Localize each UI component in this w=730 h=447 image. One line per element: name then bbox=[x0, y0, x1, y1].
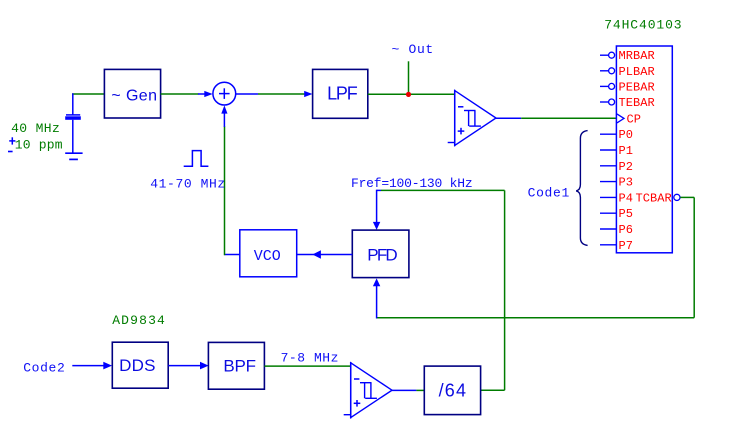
pin P7 bbox=[600, 239, 633, 253]
wire comparator U3 to /64 bbox=[392, 389, 425, 391]
pulse symbol bbox=[184, 151, 209, 167]
pin CP clock chevron bbox=[617, 112, 641, 126]
svg-text:P1: P1 bbox=[619, 144, 634, 158]
capacitor X1 top lead bbox=[72, 93, 74, 114]
svg-text:CP: CP bbox=[627, 112, 642, 126]
label plus-minus 10 ppm bbox=[8, 137, 63, 152]
svg-text:P5: P5 bbox=[619, 207, 634, 221]
svg-text:/64: /64 bbox=[439, 381, 468, 401]
pin MRBAR bbox=[600, 49, 655, 63]
svg-text:7-8 MHz: 7-8 MHz bbox=[281, 351, 339, 366]
label AD9834 bbox=[112, 313, 166, 328]
pin P3 bbox=[600, 176, 633, 190]
pin P4 bbox=[600, 191, 633, 205]
block VCO bbox=[240, 230, 297, 277]
svg-text:P4: P4 bbox=[619, 191, 634, 205]
capacitor X1 plates bbox=[65, 115, 81, 120]
label 7-8 MHz bbox=[281, 351, 339, 366]
svg-text:~ Out: ~ Out bbox=[392, 42, 434, 57]
pin P1 bbox=[600, 144, 633, 158]
wire VCO output stub bbox=[225, 254, 240, 256]
svg-text:P3: P3 bbox=[619, 176, 634, 190]
svg-text:P0: P0 bbox=[619, 128, 634, 142]
label Code2 bbox=[23, 361, 65, 376]
label 74HC40103 bbox=[604, 18, 682, 33]
block PFD bbox=[352, 230, 409, 278]
svg-text:PLBAR: PLBAR bbox=[619, 65, 655, 79]
svg-text:AD9834: AD9834 bbox=[112, 313, 166, 328]
svg-text:~ Gen: ~ Gen bbox=[111, 87, 157, 104]
svg-text:BPF: BPF bbox=[223, 356, 255, 375]
block DDS bbox=[112, 342, 168, 388]
brace Code1 bbox=[576, 131, 587, 246]
label Code1 bbox=[528, 185, 570, 200]
svg-text:DDS: DDS bbox=[119, 356, 156, 375]
block Gen bbox=[104, 69, 160, 118]
label Fref=100-130 kHz bbox=[351, 176, 472, 191]
wire: crystal node to Gen input bbox=[72, 93, 105, 95]
svg-text:TEBAR: TEBAR bbox=[619, 96, 655, 110]
wire VCO riser to summer bbox=[223, 113, 225, 255]
block LPF bbox=[313, 69, 368, 118]
wire Out stub bbox=[408, 61, 410, 94]
svg-text:TCBAR: TCBAR bbox=[636, 191, 672, 205]
wire LPF output to comparator (node Out) bbox=[368, 93, 455, 95]
wire and arrow into PFD top bbox=[373, 190, 380, 230]
ground bbox=[65, 153, 82, 159]
summer S1 bbox=[213, 82, 236, 105]
pin PLBAR bbox=[600, 65, 655, 79]
svg-text:VCO: VCO bbox=[254, 248, 281, 265]
svg-text:P6: P6 bbox=[619, 223, 634, 237]
svg-text:MRBAR: MRBAR bbox=[619, 49, 655, 63]
svg-text:P7: P7 bbox=[619, 239, 634, 253]
wire TCBAR to PFD return path bbox=[376, 197, 694, 317]
pin TEBAR bbox=[600, 96, 655, 110]
op-amp U2 comparator (Schmitt) bbox=[448, 90, 496, 146]
svg-text:PEBAR: PEBAR bbox=[619, 80, 655, 94]
wire DDS to BPF with arrow bbox=[168, 362, 208, 370]
wire PFD to VCO with left arrow bbox=[297, 250, 352, 259]
svg-text:40 MHz: 40 MHz bbox=[11, 121, 60, 136]
svg-text:41-70 MHz: 41-70 MHz bbox=[150, 176, 225, 191]
svg-text:Fref=100-130 kHz: Fref=100-130 kHz bbox=[351, 176, 472, 191]
capacitor X1 bottom lead bbox=[72, 120, 74, 153]
svg-text:Code1: Code1 bbox=[528, 185, 570, 200]
svg-text:LPF: LPF bbox=[327, 84, 358, 104]
op-amp U3 comparator (Schmitt) bbox=[344, 362, 392, 418]
junction dot node Out bbox=[406, 92, 411, 97]
pin P2 bbox=[600, 160, 633, 174]
svg-text:P2: P2 bbox=[619, 160, 634, 174]
svg-text:10 ppm: 10 ppm bbox=[15, 138, 63, 153]
wire BPF to comparator U3 bbox=[264, 365, 350, 367]
pin P0 bbox=[600, 128, 633, 142]
svg-text:Code2: Code2 bbox=[23, 361, 65, 376]
wire comparator output to CP bbox=[496, 117, 617, 119]
arrow into summer bbox=[198, 91, 213, 97]
block /64 bbox=[424, 366, 480, 415]
pin TCBAR label and bubble bbox=[636, 191, 681, 205]
label 41-70 MHz bbox=[150, 176, 225, 191]
wire Fref net: riser from /64 to PFD top bbox=[377, 190, 505, 390]
label ~ Out bbox=[392, 42, 434, 57]
arrow into LPF bbox=[304, 91, 312, 97]
pin P6 bbox=[600, 223, 633, 237]
svg-text:74HC40103: 74HC40103 bbox=[604, 18, 682, 33]
wire summer to LPF bbox=[236, 93, 305, 95]
IC U1 74HC40103 body bbox=[616, 46, 672, 253]
arrow into summer bottom bbox=[221, 105, 227, 113]
wire Code2 to DDS with arrow bbox=[72, 362, 112, 370]
label 40 MHz bbox=[11, 121, 60, 136]
block BPF bbox=[208, 342, 264, 389]
svg-text:PFD: PFD bbox=[367, 246, 397, 265]
wire and arrow into PFD bottom bbox=[373, 278, 380, 318]
wire Gen to summer bbox=[161, 93, 199, 95]
pin P5 bbox=[600, 207, 633, 221]
pin PEBAR bbox=[600, 80, 655, 94]
